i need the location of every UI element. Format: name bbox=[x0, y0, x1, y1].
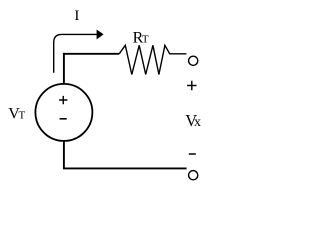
svg-text:I: I bbox=[74, 8, 79, 24]
svg-text:T: T bbox=[19, 110, 26, 122]
svg-text:x: x bbox=[194, 115, 201, 130]
svg-text:T: T bbox=[142, 34, 149, 46]
